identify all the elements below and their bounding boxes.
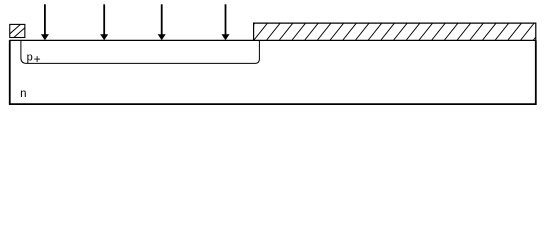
implant arrow 1 [41, 4, 49, 40]
substrate outline (n region) [10, 40, 536, 104]
left mask block [6, 24, 29, 37]
svg-text:n: n [20, 88, 26, 100]
implant arrow 3 [158, 4, 166, 40]
svg-text:p: p [27, 51, 33, 63]
right mask strip [241, 23, 545, 40]
svg-text:+: + [34, 52, 41, 66]
substrate top surface line [9, 39, 536, 41]
p+ region boundary [21, 40, 260, 63]
implant arrow 2 [100, 4, 108, 40]
implant arrow 4 [222, 4, 230, 40]
